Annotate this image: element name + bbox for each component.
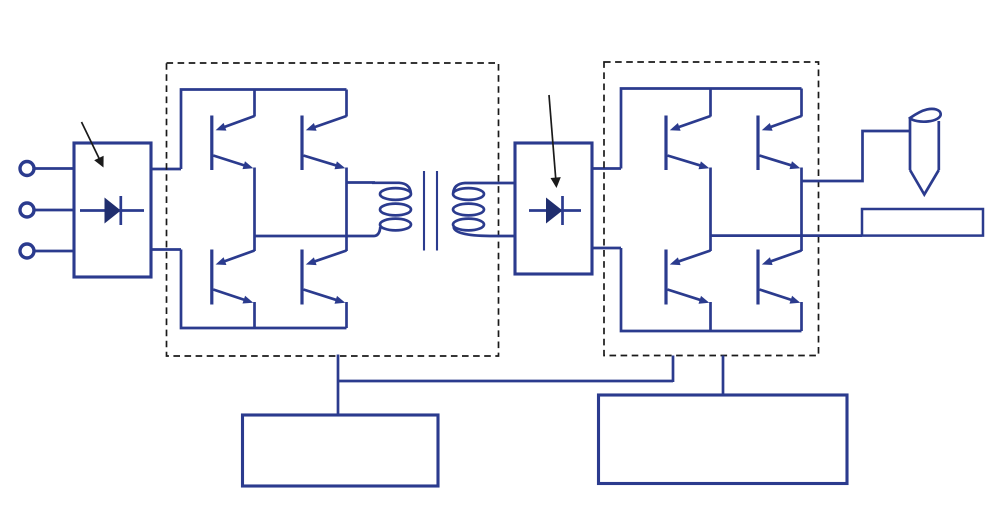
transistor Q8: [758, 250, 802, 305]
annotation arrow 1: [82, 122, 104, 168]
wire: [802, 131, 910, 181]
wire: [345, 302, 348, 328]
node A2 wire: [709, 168, 712, 252]
wire: [181, 250, 347, 329]
diode D2: [529, 196, 581, 225]
node A wire: [253, 168, 256, 252]
diode D1: [80, 196, 144, 225]
wire: [34, 167, 74, 170]
control box 2: [599, 395, 848, 484]
wire: [800, 302, 803, 331]
input terminal L2: [20, 203, 34, 217]
transistor Q6: [758, 116, 802, 171]
transformer T1 secondary coil: [453, 183, 515, 236]
wire: [722, 356, 725, 396]
rectifier U1 box: [74, 143, 151, 277]
control box 1: [243, 415, 439, 486]
transistor Q3: [212, 250, 255, 305]
wire: [34, 209, 74, 212]
wire: [337, 355, 340, 416]
wire: [592, 247, 621, 250]
rectifier U2 box: [515, 143, 592, 274]
wire: [253, 90, 256, 117]
input terminal L1: [20, 162, 34, 176]
electrode torch: [910, 109, 941, 195]
wire: [345, 90, 348, 117]
inverter 2 dashed box: [604, 62, 819, 356]
wire: [800, 89, 803, 117]
transistor Q4: [302, 250, 347, 305]
input terminal L3: [20, 244, 34, 258]
wire: [347, 181, 376, 184]
transistor Q1: [212, 116, 255, 171]
wire: [711, 234, 863, 237]
wire: [151, 248, 181, 251]
transformer T1 primary coil: [372, 183, 411, 236]
wire: [672, 356, 675, 383]
transistor Q5: [666, 116, 711, 171]
wire: [709, 89, 712, 117]
transistor Q2: [302, 116, 347, 171]
node B wire: [345, 168, 348, 252]
transistor Q7: [666, 250, 711, 305]
inverter 1 dashed box: [167, 63, 499, 356]
workpiece: [862, 209, 983, 236]
node B2 wire: [800, 168, 803, 252]
wire: [181, 90, 347, 170]
wire: [253, 302, 256, 328]
annotation arrow 2: [549, 95, 561, 188]
wire: [592, 167, 621, 170]
wire: [621, 89, 802, 169]
wire: [34, 250, 74, 253]
wire: [338, 380, 673, 383]
wire: [621, 248, 802, 331]
transformer T1 core: [424, 171, 437, 251]
wire: [255, 235, 373, 238]
wire: [709, 302, 712, 331]
wire: [151, 168, 181, 171]
